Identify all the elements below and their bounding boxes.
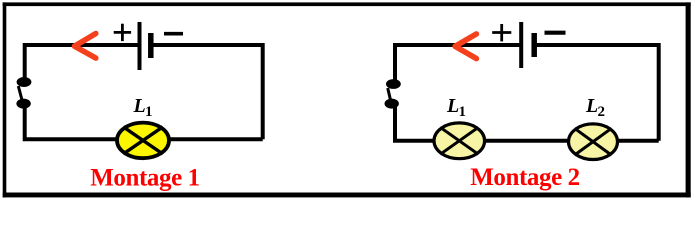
- current arrow I1 (red chevron): [75, 34, 96, 59]
- svg-text:L: L: [133, 95, 146, 117]
- battery B1 + plate (long): [138, 22, 142, 70]
- lamp L1 (montage 2): [434, 123, 485, 159]
- switch K1: top contact dot: [17, 77, 32, 87]
- switch K2: lever: [388, 88, 391, 100]
- wire: left-bottom segment (below switch) and bottom wire: [25, 105, 263, 139]
- current arrow I2 (red chevron): [455, 34, 476, 59]
- svg-text:Montage 1: Montage 1: [90, 165, 200, 192]
- wire: top-left segment (corner to battery + plate): [395, 45, 521, 81]
- svg-text:1: 1: [145, 104, 153, 120]
- lamp L1 (montage 1): [117, 123, 169, 159]
- svg-text:1: 1: [459, 104, 467, 120]
- battery B2 - plate (short): [531, 33, 537, 57]
- wire: left-bottom segment (below switch) and bottom wire: [395, 105, 659, 141]
- lamp L2 (montage 2): [569, 124, 618, 160]
- svg-text:L: L: [446, 95, 459, 117]
- wire: right segment (battery - plate to right corner down to lamp level): [535, 45, 659, 141]
- switch K2: top contact dot: [386, 79, 401, 89]
- svg-text:Montage 2: Montage 2: [470, 164, 580, 191]
- battery B2 minus label: [545, 31, 566, 35]
- battery B1 minus label: [164, 32, 183, 36]
- wire: top-left segment (corner to battery + plate): [25, 45, 139, 80]
- svg-text:L: L: [585, 95, 598, 117]
- switch K1: lever: [18, 86, 22, 100]
- battery B1 plus label: [114, 24, 131, 41]
- wire: right segment (battery - plate to right corner down to bottom): [151, 45, 263, 139]
- switch K2: bottom contact dot: [385, 99, 399, 109]
- svg-text:2: 2: [598, 104, 606, 120]
- switch K1: bottom contact dot: [16, 99, 30, 109]
- battery B2 plus label: [492, 24, 511, 41]
- battery B2 + plate (long): [519, 22, 523, 68]
- battery B1 - plate (short): [148, 33, 154, 58]
